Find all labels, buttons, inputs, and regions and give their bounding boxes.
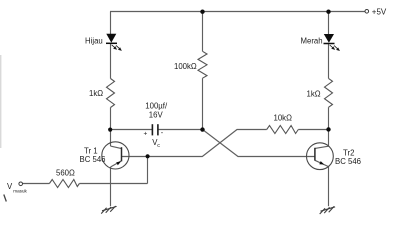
svg-text:Tr2: Tr2 bbox=[343, 148, 354, 157]
svg-text:100kΩ: 100kΩ bbox=[174, 62, 197, 71]
svg-text:100µf/: 100µf/ bbox=[145, 101, 168, 110]
svg-text:10kΩ: 10kΩ bbox=[274, 113, 293, 122]
svg-text:1kΩ: 1kΩ bbox=[89, 89, 103, 98]
svg-text:560Ω: 560Ω bbox=[56, 168, 75, 177]
svg-text:BC 546: BC 546 bbox=[80, 155, 106, 164]
svg-text:BC 546: BC 546 bbox=[335, 157, 361, 166]
svg-text:+: + bbox=[144, 131, 148, 138]
svg-text:Hijau: Hijau bbox=[85, 37, 103, 46]
svg-text:c: c bbox=[157, 143, 160, 149]
svg-text:1kΩ: 1kΩ bbox=[307, 89, 321, 98]
svg-text:16V: 16V bbox=[149, 110, 164, 119]
svg-text:V: V bbox=[7, 182, 13, 191]
svg-text:masuk: masuk bbox=[13, 189, 27, 194]
svg-text:Merah: Merah bbox=[301, 37, 323, 46]
svg-text:+5V: +5V bbox=[372, 8, 387, 17]
